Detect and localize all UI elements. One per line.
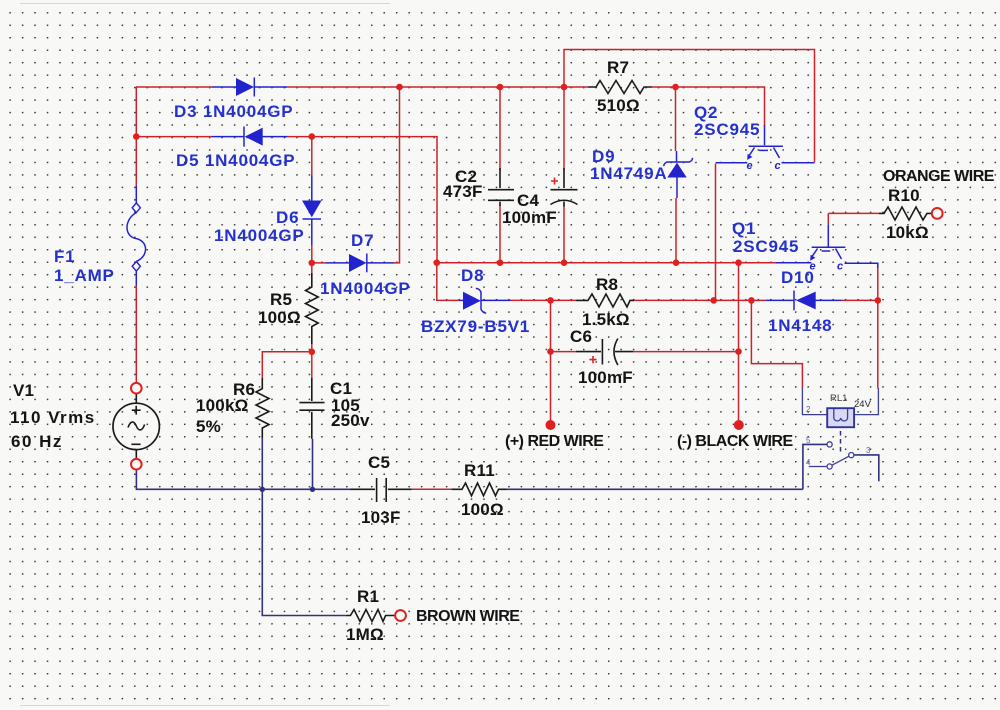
capacitor C5: [350, 478, 412, 502]
node D6 bottom: [309, 260, 316, 267]
zener diode D8: [459, 289, 511, 313]
wire D5 rail y=136.6 right segment with corner down to C-rail: [287, 137, 437, 263]
diode D7: [326, 254, 394, 273]
wire Q2 base blue segment: [764, 125, 766, 145]
svg-text:103F: 103F: [361, 508, 401, 527]
wire Q1 top blue stub: [827, 224, 829, 246]
svg-text:24V: 24V: [854, 399, 872, 410]
wire fuse top: rail corner down to F1: [135, 86, 137, 186]
node C6 left: [547, 348, 554, 355]
svg-text:2SC945: 2SC945: [733, 237, 799, 256]
node red wire terminal: [546, 420, 556, 430]
svg-text:RL1: RL1: [830, 393, 847, 404]
wire D10 right to Q1 collector column: [841, 299, 878, 301]
wire Q1 base blue segment from C-rail: [776, 262, 812, 264]
svg-text:60 Hz: 60 Hz: [11, 432, 63, 451]
svg-text:473F: 473F: [443, 182, 483, 201]
svg-text:ORANGE WIRE: ORANGE WIRE: [883, 168, 995, 185]
svg-text:e: e: [747, 160, 753, 172]
node black-column top: [735, 259, 742, 266]
node D9 rail: [672, 84, 679, 91]
zener diode D9: [664, 151, 693, 198]
svg-text:3: 3: [866, 446, 871, 455]
node C6 right: [735, 348, 742, 355]
wire V1 bottom to C5 row: [136, 470, 349, 490]
wire main rail y=87 D3 to R7: [287, 86, 588, 88]
wire D7 cathode up to main rail: [394, 87, 400, 263]
node D7 rail: [396, 84, 403, 91]
switch blade: [832, 456, 849, 465]
node R6 bottom: [260, 487, 265, 492]
svg-text:1N4004GP: 1N4004GP: [214, 226, 305, 245]
svg-text:R10: R10: [888, 186, 920, 205]
resistor R7: [588, 81, 652, 94]
resistor R8: [576, 294, 634, 307]
svg-text:D5 1N4004GP: D5 1N4004GP: [176, 151, 295, 170]
svg-text:R1: R1: [357, 587, 379, 606]
node R8 left: [547, 297, 554, 304]
svg-text:R7: R7: [607, 58, 629, 77]
wire R6 bottom drop: [261, 439, 263, 490]
node C-rail corner: [434, 259, 441, 266]
capacitor C4: [551, 168, 578, 207]
wire black terminal drop x=738.5: [738, 263, 740, 424]
node C1 bottom: [310, 487, 315, 492]
svg-text:F1: F1: [54, 247, 75, 266]
svg-text:2SC945: 2SC945: [694, 120, 760, 139]
wire main rail y=87 R7 to Q2 base corner: [652, 87, 765, 126]
svg-text:(+) RED WIRE: (+) RED WIRE: [505, 433, 604, 450]
switch contact pin3: [849, 453, 854, 458]
node D9 bottom: [673, 259, 680, 266]
diode D10: [766, 291, 841, 311]
node relay feed: [748, 297, 755, 304]
fuse F1: [127, 186, 146, 286]
relay dashed link: [840, 431, 842, 453]
svg-text:R11: R11: [464, 461, 495, 480]
wire D9 bottom to C-rail: [675, 198, 677, 263]
wire C-rail y=262.7: [437, 262, 776, 264]
svg-text:R5: R5: [270, 290, 292, 309]
wire Q2 emitter blue segment: [716, 162, 748, 164]
switch contact pin5: [827, 442, 832, 447]
wire relay coil right pin: [854, 388, 878, 415]
svg-text:250v: 250v: [331, 411, 370, 430]
svg-text:510Ω: 510Ω: [597, 96, 640, 115]
capacitor C1: [299, 378, 324, 439]
terminal R1 brown wire: [395, 610, 406, 621]
switch contact pin4: [809, 464, 832, 469]
svg-text:D3 1N4004GP: D3 1N4004GP: [174, 102, 293, 121]
resistor R10: [879, 207, 932, 220]
node R8 right: [710, 297, 717, 304]
wire top rail y=49 from C4 column over to Q2 emitter column: [564, 50, 815, 171]
svg-text:C6: C6: [570, 327, 592, 346]
terminal R10 orange wire: [932, 208, 943, 219]
wire C6 right to black-terminal column: [633, 351, 739, 353]
wire D7 anode stub: [312, 262, 326, 264]
svg-text:BROWN WIRE: BROWN WIRE: [416, 608, 520, 625]
wire C1 bottom drop: [312, 439, 314, 490]
wire main rail y=87 left segment to D3: [136, 86, 212, 88]
svg-text:1N4148: 1N4148: [768, 316, 832, 335]
wire C2 bottom lead: [499, 205, 501, 263]
wire C5 to R11: [412, 488, 452, 490]
node C4 bottom: [561, 259, 568, 266]
wire D8 cathode to R8: [511, 299, 577, 301]
capacitor C2: [488, 168, 514, 206]
capacitor C6: [576, 339, 633, 366]
wire R8 right to D10: [634, 299, 766, 301]
node rail/D5 corner: [133, 133, 140, 140]
wire C6 left stub: [551, 351, 577, 353]
svg-text:100mF: 100mF: [578, 368, 633, 387]
svg-text:D10: D10: [781, 268, 815, 287]
wire red terminal drop x=550.5: [550, 300, 552, 424]
svg-text:5: 5: [806, 436, 811, 445]
wire Q1 top to R10: [828, 213, 879, 224]
node C2 bottom: [497, 259, 504, 266]
svg-text:2: 2: [806, 405, 811, 414]
svg-text:1MΩ: 1MΩ: [346, 625, 384, 644]
svg-text:100kΩ: 100kΩ: [196, 396, 248, 415]
svg-text:D8: D8: [461, 266, 484, 285]
node C2 rail: [497, 84, 504, 91]
relay RL1: [827, 408, 854, 427]
wire Q1 collector blue segment: [845, 263, 878, 268]
svg-text:(-) BLACK WIRE: (-) BLACK WIRE: [677, 433, 793, 450]
wire D6 top lead connection: [311, 137, 313, 176]
resistor R6: [256, 378, 269, 439]
resistor R1: [346, 610, 395, 622]
wire R6 column down to R1: [262, 489, 346, 615]
svg-text:4: 4: [806, 458, 811, 467]
terminal V1 bottom: [131, 459, 142, 470]
wire C1 top: [311, 352, 313, 378]
wire relay coil pin2: [802, 388, 827, 415]
svg-text:1_AMP: 1_AMP: [54, 266, 115, 285]
diode D6: [302, 176, 322, 246]
wire R11 to relay switch common: [507, 488, 803, 490]
svg-text:C5: C5: [368, 453, 390, 472]
svg-text:BZX79-B5V1: BZX79-B5V1: [421, 317, 530, 336]
svg-text:R8: R8: [596, 275, 618, 294]
wire R5 bottom to R6 top: [262, 344, 312, 378]
svg-text:c: c: [837, 261, 843, 273]
ac source V1: [113, 394, 159, 459]
svg-text:Q1: Q1: [732, 219, 756, 238]
svg-text:c: c: [775, 160, 781, 172]
wire C2 top lead: [499, 87, 501, 170]
wire D9 top from rail: [675, 87, 677, 151]
wire D5 rail y=136.6 left segment: [136, 136, 212, 138]
svg-text:5%: 5%: [196, 417, 221, 436]
node R5 bottom: [309, 349, 316, 356]
resistor R5: [306, 273, 319, 344]
wire fuse bottom down to V1 plus terminal: [135, 285, 137, 383]
node C4 rail: [561, 84, 568, 91]
diode D3: [212, 78, 287, 97]
transistor Q1: [810, 247, 846, 272]
svg-text:100Ω: 100Ω: [461, 500, 504, 519]
wire Q1 collector column down to relay: [877, 267, 879, 389]
svg-text:V1: V1: [13, 381, 34, 400]
resistor R11: [452, 483, 507, 496]
svg-text:D6: D6: [276, 208, 299, 227]
terminal V1 top: [131, 383, 142, 394]
wire switch pin5 riser: [803, 444, 827, 489]
node Q1 collector / D10: [875, 297, 882, 304]
wire relay feed from D10 rail: [751, 300, 802, 388]
svg-text:1N4004GP: 1N4004GP: [320, 279, 411, 298]
wire C4 bottom lead: [563, 206, 565, 263]
wire Q2 emitter drop to R8 rail: [715, 164, 717, 301]
transistor Q2: [747, 146, 784, 172]
svg-text:D7: D7: [351, 231, 374, 250]
svg-text:110 Vrms: 110 Vrms: [10, 408, 96, 427]
wire Q2 collector blue segment: [782, 162, 815, 164]
node black wire terminal: [734, 420, 744, 430]
svg-text:1N4749A: 1N4749A: [590, 164, 667, 183]
wire D8 corner from C-rail: [437, 263, 459, 301]
svg-text:100mF: 100mF: [502, 208, 557, 227]
node D6 top: [309, 133, 316, 140]
svg-text:10kΩ: 10kΩ: [886, 223, 929, 242]
wire D6 bottom to D7 node and R5 top: [311, 245, 313, 273]
wire switch pin3 with stub down: [854, 455, 879, 481]
svg-text:100Ω: 100Ω: [258, 308, 301, 327]
diode D5: [212, 127, 287, 147]
